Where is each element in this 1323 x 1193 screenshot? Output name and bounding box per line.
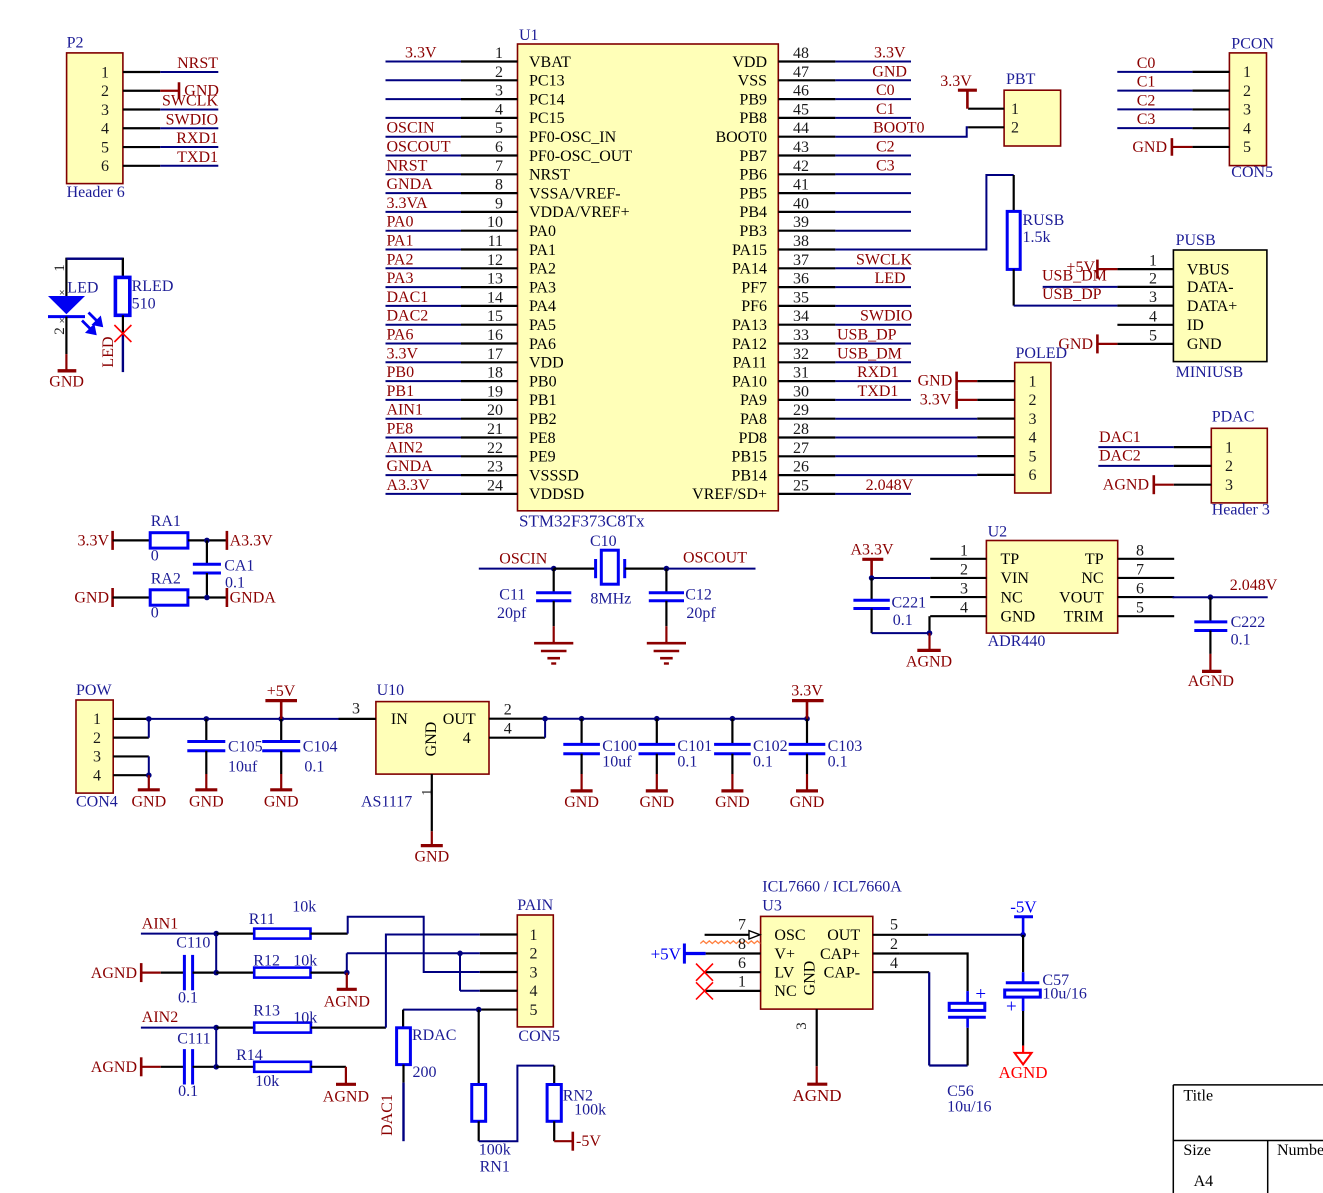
svg-text:4: 4 [1243,120,1251,137]
U1 pin 20 PB2 / net AIN1 [386,402,557,428]
wire POW pins 1-2 join [146,716,152,738]
PDAC pin 1 / net DAC1 [1098,429,1233,457]
svg-text:RA2: RA2 [151,570,181,587]
svg-text:3.3V: 3.3V [874,45,906,62]
P2 pin 2 / power GND [101,82,219,100]
svg-text:GND: GND [131,793,166,810]
svg-text:7: 7 [738,917,746,934]
wire RN1 to RN2 [479,1066,555,1142]
svg-text:AGND: AGND [906,653,952,670]
svg-text:C104: C104 [303,739,338,756]
capacitor C12 20pf [649,569,717,627]
svg-text:5: 5 [101,139,109,156]
U2 pin 4 GND [930,600,1035,626]
svg-text:0.1: 0.1 [178,1083,198,1100]
U1 pin 3 PC14 [386,83,565,109]
no-ERC squiggle under U3 pin 7 [700,941,760,944]
svg-text:8: 8 [1136,542,1144,559]
svg-text:+5V: +5V [267,683,296,700]
svg-text:5: 5 [1149,327,1157,344]
svg-text:SWCLK: SWCLK [162,93,218,110]
power 3.3V at RA1 [77,531,150,550]
svg-text:PB14: PB14 [731,467,767,484]
svg-text:26: 26 [793,459,809,476]
svg-text:GND: GND [564,794,599,811]
svg-text:+5V: +5V [651,945,682,964]
connector PDAC Header 3 body [1211,408,1270,518]
svg-text:VOUT: VOUT [1059,589,1104,606]
svg-text:6: 6 [1136,581,1144,598]
U3 pin 2 CAP+ [873,936,968,991]
svg-text:ICL7660 / ICL7660A: ICL7660 / ICL7660A [762,879,902,896]
svg-text:LED: LED [100,336,117,367]
svg-text:GND: GND [1187,336,1222,353]
U2 pin 6 VOUT [1059,581,1174,607]
svg-text:U3: U3 [762,898,782,915]
svg-text:3.3V: 3.3V [920,391,952,408]
PAIN pin 1 [480,927,538,944]
U1 pin 18 PB0 / net PB0 [386,364,557,390]
svg-text:41: 41 [793,177,809,194]
U1 pin 14 PA4 / net DAC1 [386,289,556,315]
svg-text:Header 6: Header 6 [67,184,125,201]
U1 pin 8 VSSA/VREF- / net GNDA [386,176,621,202]
svg-text:OSC: OSC [774,927,805,944]
svg-text:10uf: 10uf [228,759,258,776]
power GND below POW [131,775,166,810]
svg-text:1: 1 [1011,101,1019,118]
svg-text:PB5: PB5 [739,185,767,202]
svg-text:CAP+: CAP+ [820,946,860,963]
svg-text:RLED: RLED [132,278,174,295]
U1 pin 21 PE8 / net PE8 [386,421,556,447]
svg-text:A3.3V: A3.3V [387,477,431,494]
svg-text:PC15: PC15 [529,110,565,127]
svg-text:10: 10 [487,214,503,231]
svg-text:CAP-: CAP- [824,965,860,982]
svg-text:PA13: PA13 [732,317,767,334]
U1 pin 26 PB14 [731,459,977,485]
resistor RDAC 200 [397,1027,457,1081]
svg-text:10k: 10k [255,1073,279,1090]
U1 pin 36 PF7 / net LED [741,270,911,296]
svg-text:5: 5 [530,1002,538,1019]
PAIN pin 4 [480,983,538,1000]
svg-text:0: 0 [151,605,159,622]
svg-text:GND: GND [264,793,299,810]
capacitor C11 20pf [497,569,571,627]
capacitor C221 0.1 [853,578,926,633]
U1 pin 22 PE9 / net AIN2 [386,439,556,465]
U1 pin 37 PA14 / net SWCLK [732,251,912,277]
wire R11 to PAIN pin 3 [311,917,480,972]
wire OSCIN [479,550,557,571]
svg-text:TP: TP [1001,551,1020,568]
svg-text:19: 19 [487,383,503,400]
wire R13 to PAIN pin 1 [311,935,480,1028]
svg-text:GND: GND [414,848,449,865]
wire RA2 to GNDA + junction [188,595,227,601]
svg-text:1: 1 [93,711,101,728]
U3 pin 3 GND / power AGND [792,1009,841,1105]
svg-text:USB_DP: USB_DP [1042,286,1102,303]
svg-text:14: 14 [487,289,503,306]
svg-text:PE8: PE8 [387,421,414,438]
svg-text:C3: C3 [876,157,895,174]
svg-text:U2: U2 [988,524,1008,541]
svg-text:C222: C222 [1231,614,1266,631]
svg-text:PA5: PA5 [529,317,556,334]
svg-text:38: 38 [793,233,809,250]
svg-text:PA0: PA0 [529,223,556,240]
svg-text:3: 3 [1029,411,1037,428]
connector POLED body [1015,345,1067,493]
power A3.3V at U2 [851,542,895,578]
svg-text:0.1: 0.1 [178,990,198,1007]
svg-text:DATA-: DATA- [1187,279,1234,296]
resistor RA1 0 [150,513,188,565]
svg-text:PB7: PB7 [739,148,767,165]
U1 pin 6 PF0-OSC_OUT / net OSCOUT [386,139,633,165]
svg-text:2: 2 [504,701,512,718]
U2 pin 1 TP [930,542,1019,568]
svg-text:C111: C111 [177,1031,210,1048]
PCON pin 1 / net C0 [1117,55,1251,81]
PAIN pin 5 [480,1002,538,1019]
svg-text:PD8: PD8 [739,430,767,447]
wire AIN2 / net AIN2 [141,1009,254,1030]
power GND below C103 [790,774,825,811]
svg-text:C1: C1 [1137,74,1156,91]
svg-text:GNDA: GNDA [387,458,434,475]
U1 pin 34 PA13 / net SWDIO [732,308,912,334]
svg-text:AGND: AGND [1103,477,1149,494]
ground GND below C12 [647,626,686,663]
svg-text:PA2: PA2 [387,251,414,268]
svg-text:×: × [59,287,65,299]
svg-text:4: 4 [530,983,538,1000]
PBT pin 2 / net BOOT0 [968,120,1019,137]
svg-text:C110: C110 [176,935,210,952]
svg-text:2: 2 [495,64,503,81]
svg-text:AGND: AGND [91,1059,137,1076]
svg-text:V+: V+ [774,946,795,963]
svg-text:PA6: PA6 [529,336,556,353]
U1 pin 4 PC15 [386,101,565,127]
svg-text:PCON: PCON [1231,36,1274,53]
svg-text:25: 25 [793,477,809,494]
svg-text:2: 2 [1225,458,1233,475]
wire C110 junction to AIN1 [213,934,254,976]
capacitor C102 0.1 [714,719,788,774]
svg-text:-5V: -5V [1010,898,1037,917]
U2 pin 5 TRIM [1064,600,1175,626]
svg-text:AGND: AGND [323,1089,369,1106]
svg-text:17: 17 [487,346,503,363]
resistor RLED 510 [115,259,173,316]
svg-text:3: 3 [960,581,968,598]
wire OSCOUT [664,550,756,572]
U1 pin 2 PC13 [386,64,565,90]
U1 pin 17 VDD / net 3.3V [386,345,564,371]
U1 pin 23 VSSSD / net GNDA [386,458,579,484]
U10 pin 4 OUT sense [489,716,548,738]
POLED pin 5 [977,448,1036,465]
svg-text:40: 40 [793,195,809,212]
capacitor C105 10uf [187,719,262,776]
U1 pin 32 PA11 / net USB_DM [733,345,911,371]
svg-text:AIN1: AIN1 [142,915,178,932]
svg-text:6: 6 [101,158,109,175]
U2 pin 2 VIN [930,561,1029,587]
resistor R13 10k [253,1002,317,1032]
svg-text:NRST: NRST [529,167,570,184]
svg-text:DAC1: DAC1 [379,1094,396,1136]
svg-text:VSS: VSS [738,73,767,90]
svg-text:TXD1: TXD1 [177,149,218,166]
capacitor C103 0.1 [789,719,863,774]
connector PUSB MINIUSB body [1173,232,1267,381]
U1 pin 9 VDDA/VREF+ / net 3.3VA [386,195,630,221]
wire R14 to AGND [311,1066,346,1068]
svg-text:GND: GND [918,372,953,389]
PUSB pin 5 GND / power GND [1058,327,1221,353]
svg-text:PBT: PBT [1006,71,1036,88]
P2 pin 1 / net NRST [101,55,218,81]
title block frame [1173,1085,1323,1193]
svg-text:PA3: PA3 [529,279,556,296]
svg-text:2.048V: 2.048V [1230,577,1278,594]
POLED pin 2 / power 3.3V [920,391,1037,409]
svg-text:2.048V: 2.048V [866,477,914,494]
svg-text:ID: ID [1187,317,1204,334]
svg-text:GND: GND [639,794,674,811]
svg-text:PB15: PB15 [731,449,767,466]
svg-text:P2: P2 [67,34,84,51]
power AGND below C57 (red arrow style) [998,1046,1047,1083]
svg-text:GNDA: GNDA [387,176,434,193]
svg-text:2: 2 [101,83,109,100]
svg-text:VBAT: VBAT [529,54,571,71]
U3 pin 5 OUT / net -5V [873,917,1026,938]
svg-text:1: 1 [495,45,503,62]
svg-text:GND: GND [423,722,440,757]
svg-text:RA1: RA1 [151,513,181,530]
svg-text:3: 3 [1225,477,1233,494]
svg-text:PA4: PA4 [529,298,556,315]
svg-text:DAC1: DAC1 [1099,429,1141,446]
svg-text:0.1: 0.1 [828,754,848,771]
svg-text:C2: C2 [876,139,895,156]
svg-text:5: 5 [495,120,503,137]
power GND below C102 [715,774,750,811]
PAIN pin 3 [480,964,538,981]
connector P2 Header 6 body [67,34,125,200]
svg-text:AGND: AGND [998,1063,1047,1082]
svg-text:PB0: PB0 [387,364,415,381]
svg-text:OSCOUT: OSCOUT [387,139,451,156]
svg-text:43: 43 [793,139,809,156]
svg-text:CON5: CON5 [1231,164,1273,181]
svg-text:OSCIN: OSCIN [387,120,435,137]
U3 pin 8 V+ / power +5V (blue) [651,936,761,963]
svg-text:6: 6 [1029,467,1037,484]
svg-text:21: 21 [487,421,503,438]
svg-text:NRST: NRST [387,157,428,174]
U1 pin 12 PA2 / net PA2 [386,251,556,277]
svg-text:2: 2 [1149,270,1157,287]
U1 pin 48 VDD / net 3.3V [732,45,911,71]
PUSB pin 4 ID [1117,308,1203,334]
svg-text:9: 9 [495,195,503,212]
U1 pin 29 PA8 [740,402,977,428]
resistor R12 10k [253,953,317,978]
svg-text:GND: GND [189,793,224,810]
POLED pin 1 / power GND [918,372,1037,391]
svg-text:PF0-OSC_IN: PF0-OSC_IN [529,129,617,146]
svg-text:1.5k: 1.5k [1023,229,1051,246]
svg-text:PA15: PA15 [732,242,767,259]
PCON pin 3 / net C2 [1117,92,1251,118]
power A3.3V [227,531,273,550]
svg-text:OUT: OUT [443,711,476,728]
svg-text:VDD: VDD [529,355,564,372]
wire +5V rail [149,716,339,722]
svg-text:PB0: PB0 [529,373,557,390]
power AGND at C111 [91,1057,161,1076]
svg-text:22: 22 [487,440,503,457]
svg-text:45: 45 [793,101,809,118]
POW pin 3 [93,749,149,766]
capacitor C56 10u/16 (polarized) [947,984,991,1115]
svg-text:C2: C2 [1137,92,1156,109]
svg-text:35: 35 [793,289,809,306]
svg-text:GND: GND [790,794,825,811]
svg-text:1: 1 [1149,253,1157,270]
P2 pin 6 / net TXD1 [101,149,218,175]
svg-text:C0: C0 [876,82,895,99]
svg-text:PAIN: PAIN [517,897,553,914]
wire VIN net [869,575,930,581]
wire AGND net to PAIN pin 2 and pin 4 [347,951,480,991]
power GND below C104 [264,774,299,810]
PCON pin 4 / net C3 [1117,111,1251,137]
U2 pin 7 NC [1081,561,1174,587]
svg-text:RDAC: RDAC [412,1027,456,1044]
svg-text:0.1: 0.1 [677,754,697,771]
svg-text:C0: C0 [1137,55,1156,72]
svg-text:POLED: POLED [1016,345,1068,362]
svg-text:PDAC: PDAC [1212,408,1255,425]
resistor RN1 100k [472,1010,511,1176]
U1 pin 30 PA9 / net TXD1 [740,383,911,409]
U1 pin 46 PB9 / net C0 [739,82,911,108]
U1 pin 10 PA0 / net PA0 [386,214,556,240]
power -5V below RN2 [554,1121,601,1150]
svg-text:AIN2: AIN2 [142,1009,178,1026]
svg-text:USB_DP: USB_DP [837,327,897,344]
svg-text:PF0-OSC_OUT: PF0-OSC_OUT [529,148,632,165]
svg-text:4: 4 [93,767,101,784]
svg-text:DAC1: DAC1 [387,289,429,306]
svg-text:VSSSD: VSSSD [529,467,579,484]
svg-text:VREF/SD+: VREF/SD+ [692,486,767,503]
svg-text:8: 8 [495,177,503,194]
wire RUSB bottom to PUSB DATA+ / net USB_DP [1014,269,1118,305]
svg-text:6: 6 [495,139,503,156]
svg-text:10u/16: 10u/16 [1042,985,1086,1002]
svg-text:AGND: AGND [792,1086,841,1105]
wire 3.3V rail [545,716,810,722]
svg-text:11: 11 [488,233,503,250]
U1 pin 11 PA1 / net PA1 [386,233,556,259]
power AGND below C222 [1188,654,1234,690]
svg-text:AIN1: AIN1 [387,402,423,419]
U1 pin 19 PB1 / net PB1 [386,383,557,409]
svg-text:5: 5 [1029,448,1037,465]
IC U1 STM32F373C8Tx body [518,27,779,531]
power GND at RA2 [74,588,150,607]
svg-text:SWDIO: SWDIO [166,111,218,128]
svg-text:GND: GND [1132,139,1167,156]
svg-text:Size: Size [1183,1142,1211,1159]
ground GND below C11 [534,626,573,663]
svg-text:PA6: PA6 [387,327,414,344]
svg-text:PA1: PA1 [387,233,414,250]
svg-text:5: 5 [1243,139,1251,156]
svg-text:10k: 10k [293,1010,317,1027]
svg-text:TP: TP [1085,551,1104,568]
svg-text:PC13: PC13 [529,73,565,90]
svg-text:POW: POW [76,682,112,699]
svg-text:4: 4 [504,720,512,737]
svg-text:+: + [1006,997,1017,1018]
svg-text:2: 2 [1243,83,1251,100]
svg-text:6: 6 [738,955,746,972]
svg-text:Header 3: Header 3 [1212,501,1270,518]
svg-text:C221: C221 [892,594,927,611]
wire AIN1 / net AIN1 [141,915,254,936]
svg-text:29: 29 [793,402,809,419]
svg-text:PB1: PB1 [529,392,557,409]
U1 pin 15 PA5 / net DAC2 [386,308,556,334]
P2 pin 3 / net SWCLK [101,93,218,119]
svg-text:2: 2 [1029,392,1037,409]
svg-text:C105: C105 [228,739,263,756]
POLED pin 3 [977,411,1036,428]
U1 pin 5 PF0-OSC_IN / net OSCIN [386,120,617,146]
U3 pin 6 LV with no-connect X [696,955,761,981]
svg-text:2: 2 [93,730,101,747]
U2 pin 3 NC [930,581,1023,607]
svg-text:3.3V: 3.3V [940,73,972,90]
svg-text:PF7: PF7 [741,279,767,296]
svg-text:-5V: -5V [576,1133,601,1150]
svg-text:32: 32 [793,346,809,363]
U10 pin 1 GND + power GND [414,774,449,865]
svg-text:C11: C11 [499,586,525,603]
svg-text:USB_DM: USB_DM [837,345,902,362]
svg-text:PB6: PB6 [739,167,767,184]
svg-text:Number: Number [1277,1142,1323,1159]
svg-text:PA11: PA11 [733,355,767,372]
svg-text:R11: R11 [249,911,275,928]
svg-text:3.3V: 3.3V [405,45,437,62]
svg-text:PB1: PB1 [387,383,415,400]
svg-text:C1: C1 [876,101,895,118]
svg-text:PA12: PA12 [732,336,767,353]
svg-text:4: 4 [463,730,471,747]
